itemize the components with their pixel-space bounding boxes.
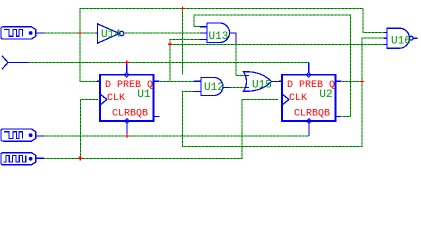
svg-text:CLRBQB: CLRBQB [112,108,148,119]
svg-text:U14: U14 [101,29,121,41]
svg-text:D PREB Q: D PREB Q [105,80,153,91]
svg-text:U15: U15 [252,80,272,92]
svg-text:D PREB Q: D PREB Q [287,80,335,91]
svg-text:U13: U13 [209,31,229,43]
svg-text:CLK: CLK [289,93,307,104]
svg-text:U16: U16 [391,36,411,48]
svg-text:U12: U12 [204,82,224,94]
svg-text:CLRBQB: CLRBQB [294,108,330,119]
svg-text:CLK: CLK [107,93,125,104]
